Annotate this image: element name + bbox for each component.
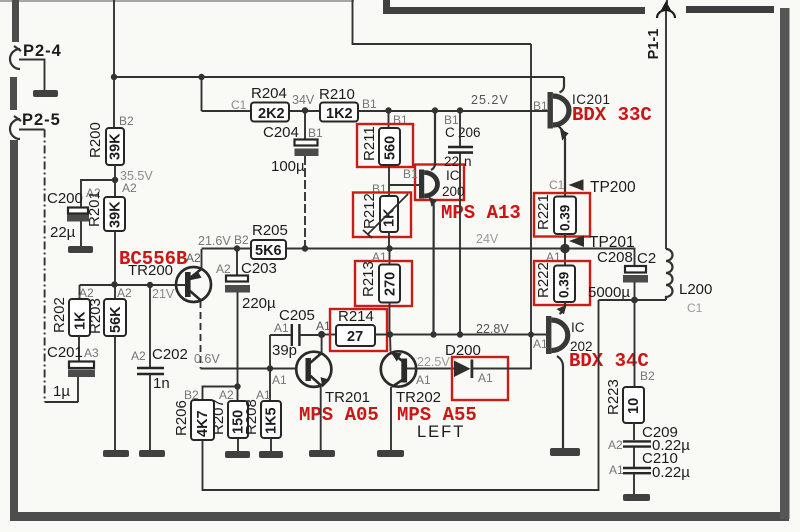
node junction (435,110.5) [432,107,438,113]
svg-text:L200: L200 [679,281,712,298]
ground (R203) [103,450,129,457]
border top bar segment A [383,7,645,14]
wire TR200 base rail y=285 [80,284,187,286]
node junction (460,110.5) [457,107,463,113]
node junction (460,334.5) [457,331,463,337]
svg-text:C1: C1 [231,98,247,112]
svg-text:A2: A2 [117,286,132,300]
svg-text:R222: R222 [535,262,552,298]
wire C203 down to R207 with R206 tap [237,292,239,401]
svg-text:B2: B2 [640,369,655,383]
svg-text:1µ: 1µ [53,383,70,400]
svg-text:34V: 34V [292,93,315,107]
border top-left thin line [0,0,354,2]
svg-text:1n: 1n [153,375,170,392]
resistor R210 [319,86,377,122]
svg-text:A2: A2 [219,388,234,402]
wire TR200 emitter up to 24V rail [201,249,203,268]
ground (C200) [68,246,93,253]
wire R221 to output node [564,234,566,266]
border bottom bar [10,512,789,521]
wire R201 down through base node to R203 [114,231,116,299]
svg-text:TP200: TP200 [590,179,636,196]
node junction (634.5,300) [631,297,638,304]
transistor IC200 (MPS A13, red boxed) [403,111,521,335]
capacitor C210 (0.22u) [609,450,690,481]
resistor R206 (4K7) [173,388,214,440]
wire R206 bottom feedback to output [203,300,599,490]
svg-text:270: 270 [383,272,399,296]
wire P1-1 line down to L200 [665,23,667,249]
border left dash 1 [12,0,19,42]
svg-text:A2: A2 [608,438,623,452]
node junction (150,285) [147,282,153,288]
wire R207 to ground [237,438,239,451]
svg-text:B1: B1 [362,97,377,111]
wire P2-4 to ground [19,60,45,91]
capacitor C206 (22n) [444,111,481,169]
wire C204 bottom to 24V rail (partly dashed) [304,156,306,249]
node junction (114.5,284.5) [111,281,117,287]
svg-text:5K6: 5K6 [255,243,282,259]
resistor R200 [87,114,134,165]
svg-text:B2: B2 [119,114,134,128]
svg-text:25.2V: 25.2V [471,93,509,107]
svg-text:R221: R221 [535,194,552,230]
node junction (115,180) [112,177,118,183]
border top-right bar stub [383,0,390,13]
svg-text:B1: B1 [403,167,418,181]
ground (R208) [259,451,283,458]
resistor R204 [231,85,289,122]
wire R206 top tap [203,387,238,401]
wire output line x=531 down to D200 net [530,44,532,335]
svg-text:C202: C202 [152,346,188,363]
resistor R213 (red boxed, 270) [355,261,412,306]
wire driver rail y=335 (C205/R214/bias) [270,334,292,336]
ground (P2-4) [33,90,58,97]
resistor R223 (10) [605,300,655,423]
transistor IC202 (BDX 34C) [533,302,649,448]
svg-text:1K5: 1K5 [264,407,280,434]
node junction (237,248.5) [234,245,240,251]
wire R202 top stub [79,285,81,299]
svg-text:R201: R201 [86,191,103,227]
connector P1-1 (arrow) [646,0,675,59]
capacitor C202 (1n) [131,285,188,392]
ground (C210) [623,494,650,501]
capacitor C200 (electrolytic 22u) [47,186,101,241]
svg-text:0.39: 0.39 [557,272,572,298]
svg-text:B1: B1 [308,126,323,140]
transistor TR200 (BC556B) [119,248,211,302]
wire C208 bottom to output wire [634,282,636,300]
wire 25.2V top rail y=77 [114,76,564,78]
svg-text:A2: A2 [131,349,146,363]
resistor R211 (red boxed, 560) [357,124,413,167]
svg-text:C200: C200 [47,190,83,207]
resistor R212 (red boxed trimmer) [353,193,411,239]
wire top Z-line from top edge [353,0,532,44]
svg-text:C2: C2 [637,250,656,267]
inductor L200 [666,249,712,315]
wire R200 to R201 [114,165,116,197]
svg-text:C1: C1 [687,301,703,315]
svg-text:A1: A1 [316,319,331,333]
node junction (388,110.5) [385,107,391,113]
capacitor C203 (electrolytic 220u) [216,249,277,313]
wire R212 to 24V rail [388,232,390,249]
svg-text:P2-5: P2-5 [22,111,61,129]
transistor TR202 (MPS A55) [381,351,477,426]
node junction (531,335) [528,332,534,338]
svg-text:TR200: TR200 [128,262,173,279]
wire B1 rail y=111 [202,110,548,112]
svg-text:R213: R213 [360,261,377,297]
test point TP201 [569,234,635,251]
svg-text:R223: R223 [605,379,622,415]
transistor TR201 (MPS A05) [296,352,379,426]
node junction (389.5,248) [386,245,392,251]
resistor R205 [251,222,288,259]
svg-text:R207: R207 [210,399,227,435]
wire R210 to R211 [388,111,390,128]
wire TR202 base to D200 [407,368,454,370]
wire corner down from top rail to B1 rail [201,77,203,111]
resistor R208 (1K5) [243,388,281,438]
svg-text:P2-4: P2-4 [23,42,62,60]
wire R211 to R212 [388,165,390,196]
svg-text:R203: R203 [87,298,104,334]
resistor R201 [86,191,125,231]
capacitor C208 (electrolytic 5000u) [588,249,656,301]
svg-text:100µ: 100µ [271,158,305,175]
border top bar segment B [686,6,774,13]
svg-text:A1: A1 [272,373,287,387]
svg-text:A2: A2 [186,251,201,265]
node junction (201.5,77) [198,74,204,80]
svg-text:A1: A1 [256,388,271,402]
svg-text:C: C [445,125,455,140]
svg-text:10: 10 [626,398,642,414]
wire speaker node y=300 [599,299,667,301]
svg-text:B2: B2 [184,388,199,402]
wire R208 to ground [270,438,272,451]
svg-text:B2: B2 [234,233,249,247]
resistor R207 (150) [210,388,248,438]
svg-text:A2: A2 [79,286,94,300]
wire D200 cathode to rail [473,335,531,369]
wire R223 to C209 [633,423,635,440]
node junction (321.6,334.5) [318,331,325,338]
wire R213 to lower rail junction [389,303,391,335]
border right bar [780,8,790,519]
svg-text:P1-1: P1-1 [646,29,662,60]
svg-text:22µ: 22µ [50,224,76,241]
ground (C202) [139,450,165,457]
ground (R207) [225,451,250,458]
node junction (390,334.5) [387,331,393,337]
wire TR202 emitter up to rail junction [389,335,392,352]
svg-text:BDX 34C: BDX 34C [569,350,649,372]
wire IC200 base tap [389,184,419,186]
resistor R221 (red boxed, 0.39) [534,193,590,237]
svg-text:A2: A2 [216,262,231,276]
wire C200 to ground [80,221,82,246]
test point TP200 [549,178,636,196]
svg-text:R205: R205 [252,222,288,239]
node junction (270,368.5) [267,365,273,371]
wire main supply vertical x=114 from top [113,0,115,128]
svg-text:A1: A1 [478,371,493,385]
svg-text:C201: C201 [47,344,83,361]
svg-text:56K: 56K [108,306,124,333]
node junction (114,77) [111,74,117,80]
svg-text:BDX 33C: BDX 33C [572,104,652,126]
wire TR201 emitter to ground [320,386,322,450]
resistor R203 [87,286,132,336]
transistor IC201 (BDX 33C) [548,77,652,196]
diode D200 (red boxed) [445,342,508,400]
capacitor C204 (electrolytic 100u) [263,111,323,175]
svg-text:22: 22 [444,154,459,169]
ground (TR201) [309,450,335,457]
svg-text:A1: A1 [609,463,624,477]
connector P2-4 [10,42,62,69]
wire TR202 collector to ground [390,387,392,450]
svg-text:27: 27 [347,329,363,345]
svg-text:206: 206 [458,125,481,140]
ground (IC202) [550,448,580,456]
resistor R222 (red boxed, 0.39) [534,261,590,305]
wire output node to C208 [565,249,635,267]
svg-text:0.22µ: 0.22µ [652,464,690,481]
svg-text:A1: A1 [533,337,548,351]
svg-text:220µ: 220µ [242,295,276,312]
svg-text:200: 200 [442,184,465,199]
svg-text:4K7: 4K7 [195,410,211,437]
svg-text:R200: R200 [87,122,104,158]
wire R203 to ground [114,336,116,450]
wire TR200 collector down (dashed) [200,301,202,369]
wire TR201 collector from junction [321,335,323,354]
svg-text:39p: 39p [272,342,297,359]
svg-text:R206: R206 [173,400,190,436]
svg-text:1K2: 1K2 [326,106,353,122]
svg-text:A1: A1 [416,373,431,387]
svg-text:R210: R210 [319,86,355,103]
svg-text:0.39: 0.39 [558,205,573,231]
svg-text:2K2: 2K2 [258,106,285,122]
wire C206 down to lower rail [459,154,461,335]
border left dash 3 (long, to bottom corner) [10,140,18,516]
connector P2-5 [10,111,61,139]
svg-text:A2: A2 [122,181,137,195]
ground (TR202) [377,450,404,457]
wire C205 branch down to R208 [269,335,271,401]
wire R214 to rail [375,334,546,336]
border left dash 2 [10,77,17,110]
node junction (433.5,334.5) [430,331,436,337]
svg-text:MPS A05: MPS A05 [299,404,379,426]
svg-text:B1: B1 [533,99,548,113]
resistor R214 (red boxed, 27) [330,308,387,351]
wire P2-5 input line (dash-dot down the left) [19,129,45,131]
wire C202 to ground [149,375,151,450]
wire C209 to C210 [633,447,635,467]
svg-text:R211: R211 [361,126,378,161]
svg-text:MPS A13: MPS A13 [441,202,521,224]
svg-text:C208: C208 [597,249,633,266]
svg-text:24V: 24V [476,232,499,246]
svg-text:R214: R214 [338,308,374,325]
svg-text:C1: C1 [549,178,565,192]
svg-text:5000µ: 5000µ [588,284,630,301]
node junction (305,248.5) [302,245,308,251]
svg-text:R202: R202 [51,297,68,333]
wire 24V output rail y=248.5 [202,248,566,250]
svg-text:560: 560 [383,136,399,160]
capacitor C201 (electrolytic 1u) [47,344,99,400]
capacitor C205 (39p) [272,307,315,359]
svg-text:R204: R204 [251,85,287,102]
svg-text:21V: 21V [152,287,175,301]
node junction (237.5,386.5) [234,383,240,389]
svg-text:21.6V: 21.6V [198,234,231,248]
svg-text:n: n [464,154,472,169]
svg-text:R212: R212 [361,193,378,229]
wire R202 to C201 [78,336,80,361]
svg-text:39K: 39K [108,133,124,160]
wire C201 bottom to input line [77,377,79,402]
wire C210 to ground [633,473,635,494]
svg-text:R208: R208 [243,399,260,435]
wire rail to R213 [389,249,391,265]
svg-text:0.6V: 0.6V [194,352,220,366]
node junction output (565,249) [560,244,570,254]
wire C205 to TR201 collector junction [299,334,321,336]
svg-text:IC: IC [571,320,585,335]
svg-text:A1: A1 [274,321,289,335]
svg-text:IC: IC [446,168,460,183]
svg-text:39K: 39K [108,201,124,228]
wire junction to C200 [81,180,115,207]
node junction (305,110) [302,107,308,113]
capacitor C209 (0.22u) [608,424,690,454]
wire junction to R214 [322,334,336,336]
resistor R202 [51,286,94,336]
svg-text:A3: A3 [84,346,99,360]
svg-text:LEFT: LEFT [417,423,465,441]
wire TR200 collector rail y=368.5 (0.6V) [201,368,297,370]
